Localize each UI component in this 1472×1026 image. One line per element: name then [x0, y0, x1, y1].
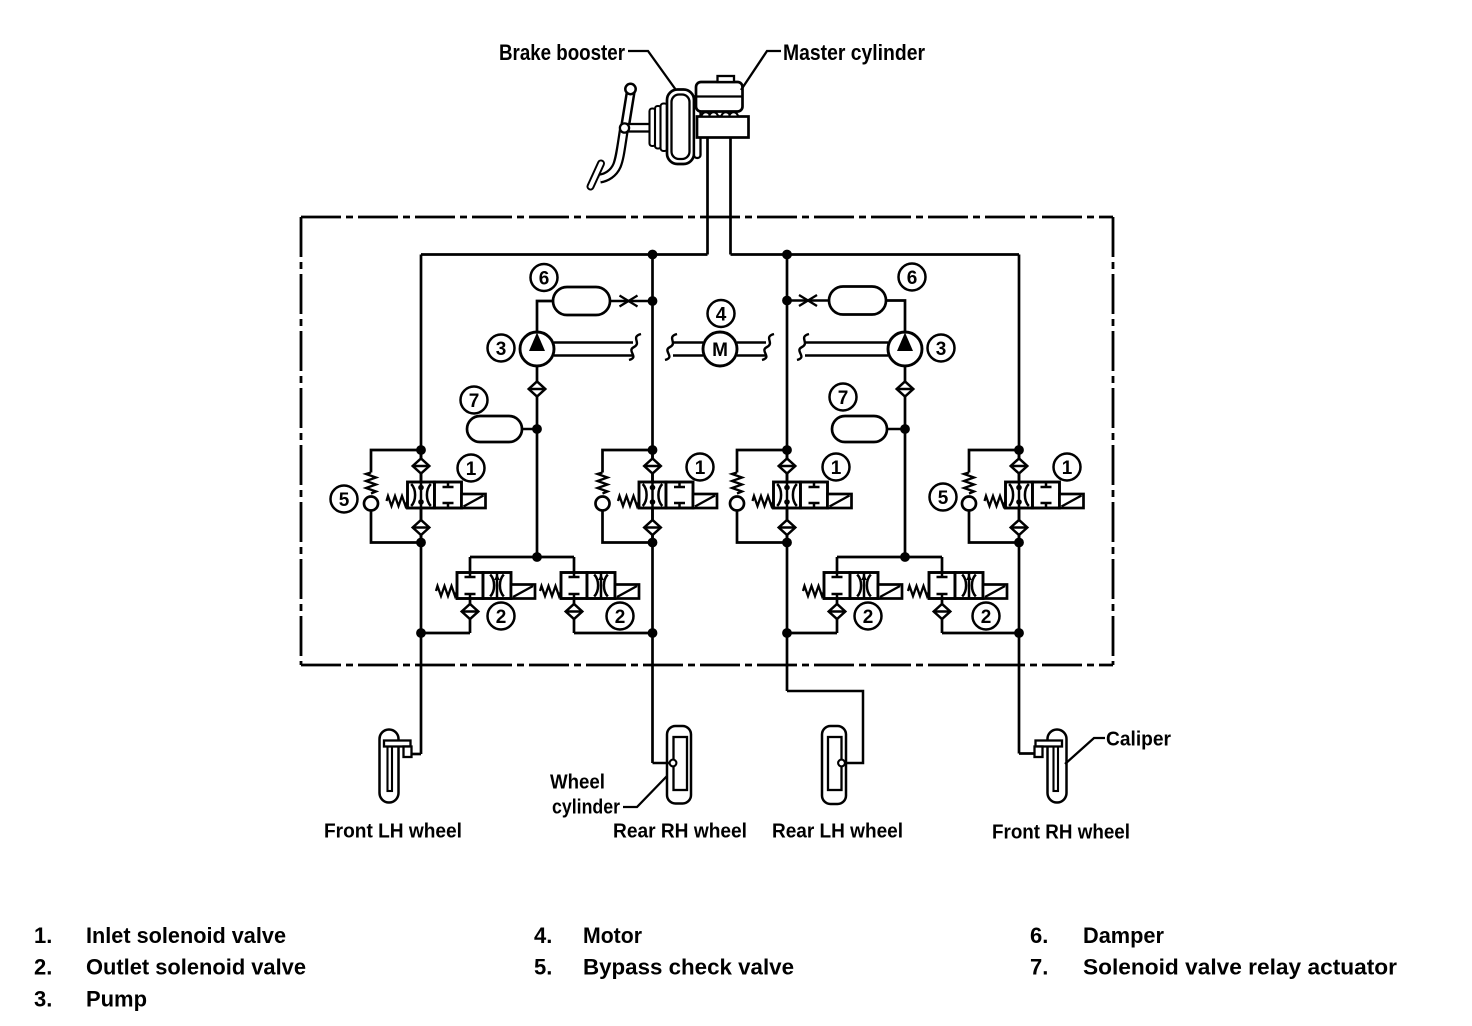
inlet solenoid valve 1 (front LH): [364, 450, 486, 543]
junction: inlet valve bottoms: [416, 538, 426, 548]
junction: actuator tap right: [900, 424, 910, 434]
leader: wheel cylinder: [623, 776, 667, 807]
damper 6 (right): [829, 287, 886, 315]
wire: outlet valve drain to front LH line: [421, 632, 470, 635]
outlet solenoid valve 2 (front LH): [436, 557, 535, 633]
wire: left pump to damper elbow: [537, 301, 553, 332]
svg-text:Front RH wheel: Front RH wheel: [992, 822, 1130, 844]
wire: rear RH wheel cylinder pipe: [653, 762, 671, 765]
svg-text:Brake booster: Brake booster: [499, 40, 625, 65]
label 1 (rear RH inlet valve): [687, 454, 714, 481]
pump 3 (right): [888, 332, 922, 366]
svg-text:6: 6: [539, 269, 550, 290]
wire: rear RH wheel line: [651, 255, 654, 764]
label 7 (right actuator): [830, 384, 857, 411]
svg-text:7.: 7.: [1030, 955, 1048, 980]
svg-text:Rear RH wheel: Rear RH wheel: [613, 821, 747, 843]
filter below left pump: [529, 381, 546, 396]
wire: rear LH wheel pipe: [787, 691, 863, 763]
leader: master cylinder: [741, 51, 781, 90]
svg-text:1: 1: [466, 459, 477, 480]
filter below right pump: [897, 381, 914, 396]
wire: front RH caliper pipe: [1019, 752, 1035, 755]
label 3 (right pump): [928, 335, 955, 362]
rear RH wheel cylinder: [670, 760, 677, 767]
svg-text:5: 5: [938, 488, 949, 509]
junction: left bus / rear RH: [648, 250, 658, 260]
front RH wheel tire: [1048, 730, 1067, 803]
outlet solenoid valve 2 (rear LH): [803, 557, 902, 633]
svg-text:cylinder: cylinder: [552, 797, 620, 819]
reservoir cap: [718, 76, 735, 82]
svg-text:4.: 4.: [534, 923, 552, 948]
svg-text:Pump: Pump: [86, 987, 147, 1012]
rear RH wheel tire: [667, 726, 691, 804]
master cylinder ports: [702, 112, 711, 116]
label 2 (rear LH outlet valve): [855, 603, 882, 630]
shaft: left pump drive: [554, 343, 633, 356]
damper 6 (left): [553, 287, 610, 315]
orifice (right): [799, 295, 817, 306]
front LH caliper: [384, 741, 411, 747]
label 6 (right damper): [899, 264, 926, 291]
svg-text:Bypass check valve: Bypass check valve: [583, 955, 794, 980]
booster bellows rings: [650, 109, 656, 147]
svg-text:Outlet solenoid valve: Outlet solenoid valve: [86, 955, 306, 980]
front LH brake disc: [388, 742, 393, 792]
pedal pivot: [625, 84, 635, 94]
junction: right bus / rear LH: [782, 250, 792, 260]
brake pedal pad: [591, 164, 602, 187]
label 4 (motor): [708, 300, 735, 327]
svg-text:Motor: Motor: [583, 923, 642, 948]
label 2 (front LH outlet valve): [488, 603, 515, 630]
wire: left circuit bus: [421, 253, 708, 256]
rear RH drum: [674, 737, 688, 790]
junction: inlet valve tops: [416, 445, 426, 455]
junction: actuator tap left: [532, 424, 542, 434]
junction: return taps: [532, 552, 542, 562]
wire: rear LH wheel line: [786, 255, 789, 692]
wire: right return line: [904, 397, 907, 558]
svg-text:Caliper: Caliper: [1106, 729, 1171, 751]
svg-text:6.: 6.: [1030, 923, 1048, 948]
wire: front LH caliper pipe: [412, 753, 422, 756]
wire: master cylinder secondary outlet pipe: [729, 137, 732, 255]
svg-text:5: 5: [339, 490, 350, 511]
label 5 (right bypass check valve): [930, 484, 957, 511]
outlet solenoid valve 2 (rear RH): [540, 557, 639, 633]
orifice (left): [620, 296, 638, 307]
leader: caliper: [1065, 738, 1105, 764]
svg-text:Rear LH wheel: Rear LH wheel: [772, 821, 903, 843]
brake pedal arm upper: [625, 90, 631, 127]
svg-text:1.: 1.: [34, 923, 52, 948]
svg-text:2: 2: [496, 607, 507, 628]
svg-text:Damper: Damper: [1083, 923, 1164, 948]
solenoid valve relay actuator 7 (left): [467, 416, 522, 442]
label 5 (left bypass check valve): [331, 486, 358, 513]
svg-text:3.: 3.: [34, 987, 52, 1012]
svg-text:Master cylinder: Master cylinder: [783, 40, 925, 65]
svg-text:2.: 2.: [34, 955, 52, 980]
svg-text:5.: 5.: [534, 955, 552, 980]
rear LH wheel tire: [822, 726, 846, 804]
wire: front LH wheel line: [420, 255, 423, 755]
wire: outlet valve drain to rear RH line: [574, 632, 653, 635]
shaft: right pump drive: [805, 343, 888, 356]
wire: left return line: [536, 397, 539, 558]
master cylinder reservoir: [696, 82, 743, 112]
svg-text:3: 3: [936, 339, 947, 360]
inlet solenoid valve 1 (rear LH): [730, 450, 852, 543]
label 1 (rear LH inlet valve): [823, 454, 850, 481]
svg-text:Wheel: Wheel: [550, 772, 605, 794]
svg-text:Front LH wheel: Front LH wheel: [324, 821, 462, 843]
svg-text:M: M: [712, 340, 728, 361]
junction: damper tap left: [648, 296, 658, 306]
svg-text:1: 1: [695, 458, 706, 479]
label 7 (left actuator): [461, 387, 488, 414]
wire: right damper to rear LH line: [787, 299, 829, 302]
solenoid valve relay actuator 7 (right): [832, 416, 887, 442]
shaft: motor left: [673, 343, 703, 356]
svg-text:6: 6: [907, 268, 918, 289]
front LH wheel tire: [380, 730, 399, 803]
wire: left damper to rear RH line: [610, 300, 653, 303]
label 3 (left pump): [488, 335, 515, 362]
svg-text:Inlet solenoid valve: Inlet solenoid valve: [86, 923, 286, 948]
wire: right pump to damper elbow: [886, 301, 905, 333]
svg-text:2: 2: [981, 607, 992, 628]
pedal push rod: [628, 124, 652, 132]
wire: front RH wheel line: [1018, 255, 1021, 754]
svg-text:7: 7: [469, 391, 480, 412]
inlet solenoid valve 1 (front RH): [962, 450, 1084, 543]
svg-text:1: 1: [831, 458, 842, 479]
label 1 (front RH inlet valve): [1054, 454, 1081, 481]
wire: left outlet-valve bus: [470, 556, 574, 559]
wire: outlet valve drain to rear LH line: [787, 632, 837, 635]
shaft: motor right: [737, 343, 766, 356]
wire: master cylinder primary outlet pipe: [706, 137, 709, 255]
svg-text:4: 4: [716, 305, 727, 326]
outlet solenoid valve 2 (front RH): [908, 557, 1007, 633]
wire: right outlet-valve bus: [837, 556, 942, 559]
rear LH wheel cylinder: [838, 760, 845, 767]
wire: outlet valve drain to front RH line: [942, 632, 1019, 635]
brake pedal arm lower: [600, 129, 624, 179]
wire: left actuator tap: [522, 428, 537, 431]
junction: drain taps: [416, 628, 426, 638]
leader: brake booster: [628, 51, 676, 90]
wire: right pump suction: [904, 366, 907, 382]
motor 4: [703, 332, 737, 366]
wire: left pump suction: [536, 366, 539, 382]
label 1 (front LH inlet valve): [458, 455, 485, 482]
label 2 (rear RH outlet valve): [607, 603, 634, 630]
front RH brake disc: [1054, 742, 1059, 792]
brake booster shell: [667, 90, 694, 165]
svg-text:1: 1: [1062, 458, 1073, 479]
inlet solenoid valve 1 (rear RH): [596, 450, 718, 543]
label 2 (front RH outlet valve): [973, 603, 1000, 630]
wire: right actuator tap: [887, 428, 905, 431]
pump 3 (left): [520, 332, 554, 366]
junction: damper tap right: [782, 296, 792, 306]
pedal rod joint: [620, 123, 629, 132]
rear LH drum: [828, 737, 842, 790]
svg-text:Solenoid valve relay actuator: Solenoid valve relay actuator: [1083, 955, 1397, 980]
svg-text:7: 7: [838, 388, 849, 409]
svg-text:2: 2: [615, 607, 626, 628]
svg-text:2: 2: [863, 607, 874, 628]
svg-text:3: 3: [496, 339, 507, 360]
wire: right circuit bus: [731, 253, 1020, 256]
label 6 (left damper): [531, 264, 558, 291]
master cylinder body: [697, 117, 749, 138]
front RH caliper: [1036, 741, 1063, 747]
